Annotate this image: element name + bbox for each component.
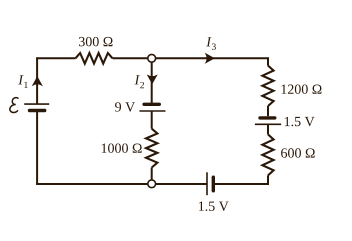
wire top-left horizontal segment xyxy=(36,57,75,59)
arrowhead current I1 (up) xyxy=(33,77,42,85)
wire bottom left segment node to corner xyxy=(36,183,148,185)
label I2 xyxy=(135,75,144,88)
battery 1.5 V bottom: thick short plate (right) xyxy=(212,177,215,191)
node junction bottom (open circle) xyxy=(148,180,156,188)
battery emf: thin long plate (top) xyxy=(24,103,49,105)
battery 9 V: thick short plate (top) xyxy=(144,103,159,106)
wire middle branch battery to 1000 ohm xyxy=(151,111,153,129)
label 1.5 V bottom xyxy=(199,202,229,211)
wire bottom middle segment battery to node xyxy=(156,183,207,185)
battery 1.5 V right: thick short plate (top) xyxy=(260,116,275,119)
label I3 xyxy=(206,37,216,50)
label 1000 ohm xyxy=(102,143,142,152)
battery 1.5 V right: thin long plate (bottom) xyxy=(255,123,281,125)
wire bottom right segment corner to battery xyxy=(213,183,269,185)
resistor R 300 ohm zigzag xyxy=(76,53,113,64)
label I1 xyxy=(18,75,27,88)
wire right vertical top stub xyxy=(267,57,269,65)
battery 9 V: thin long plate (bottom) xyxy=(140,110,166,112)
label 1200 ohm xyxy=(282,84,322,93)
wire right between battery and 600 ohm xyxy=(267,124,269,134)
wire middle branch node to battery xyxy=(151,62,153,104)
wire top middle segment resistor to node xyxy=(113,57,148,59)
battery emf: thick short plate (bottom) xyxy=(30,109,45,112)
wire middle branch 1000 ohm to bottom node xyxy=(151,168,153,180)
node junction top (open circle) xyxy=(148,54,156,62)
wire right bottom stub to corner xyxy=(267,175,269,185)
arrowhead current I3 (right) xyxy=(206,54,214,63)
label 9 V xyxy=(115,102,135,111)
resistor R 1000 ohm zigzag xyxy=(146,129,157,168)
label 600 ohm xyxy=(281,148,315,157)
label 300 ohm xyxy=(79,37,113,46)
label emf script E xyxy=(10,98,19,113)
resistor R 600 ohm zigzag xyxy=(262,134,273,175)
resistor R 1200 ohm zigzag xyxy=(262,66,273,106)
wire left vertical upper segment xyxy=(36,57,38,104)
battery 1.5 V bottom: thin long plate (left) xyxy=(206,172,208,195)
wire right between 1200 ohm and battery xyxy=(267,106,269,116)
arrowhead current I2 (down) xyxy=(148,75,157,83)
wire top right segment node to corner xyxy=(156,57,269,59)
label 1.5 V right xyxy=(285,117,315,126)
wire left vertical lower segment xyxy=(36,111,38,185)
